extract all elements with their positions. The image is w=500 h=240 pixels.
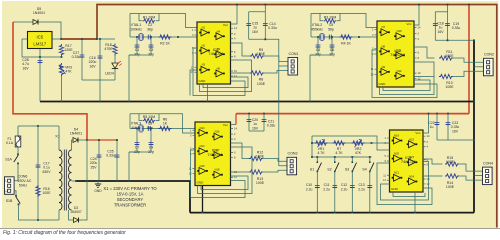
wire osc2 ground rail [310, 54, 332, 56]
svg-text:S4: S4 [362, 168, 366, 172]
svg-text:15V-0-15V, 1A: 15V-0-15V, 1A [117, 192, 144, 197]
svg-text:Vcc: Vcc [406, 22, 412, 26]
svg-text:R2 1K: R2 1K [160, 41, 170, 45]
svg-text:CON3: CON3 [288, 152, 298, 156]
inverter gate N3 [199, 69, 201, 71]
diode D3 [74, 218, 79, 223]
wire osc3 main line [130, 128, 174, 130]
wire IC3 GND to lower bus [202, 186, 204, 213]
wire osc1 fb left lead [139, 14, 142, 21]
svg-text:S3: S3 [345, 168, 349, 172]
junction C23 rail-riser [473, 139, 475, 141]
fuse F1 [15, 136, 21, 147]
preset VR3 [59, 63, 63, 76]
resistor R13 [249, 170, 263, 174]
svg-text:230V AC: 230V AC [18, 179, 32, 183]
resistor R1 [143, 19, 156, 23]
svg-text:630V: 630V [43, 170, 52, 174]
svg-text:N9: N9 [382, 65, 386, 69]
svg-text:33p: 33p [148, 52, 154, 56]
svg-text:N4: N4 [217, 29, 221, 33]
svg-text:100E: 100E [43, 191, 52, 195]
wire C25 column [116, 140, 118, 181]
svg-text:74HC14: 74HC14 [401, 159, 416, 164]
wire primary top rail [18, 125, 59, 127]
wire red riser right [468, 5, 470, 114]
svg-text:100kHz: 100kHz [130, 27, 142, 31]
svg-text:74HC04: 74HC04 [208, 51, 223, 56]
junction C22 on red bus [436, 113, 438, 115]
wire CON6 N to S1B [14, 191, 16, 196]
capacitor C2 [147, 35, 149, 40]
svg-text:N14: N14 [200, 144, 205, 148]
inverter gate N4 [214, 35, 216, 37]
junction osc1 main [177, 36, 179, 38]
svg-text:33p: 33p [134, 52, 140, 56]
wire D5 anode [13, 21, 33, 23]
inverter gate N11 [394, 54, 396, 56]
svg-text:N24: N24 [409, 174, 414, 178]
svg-text:16V: 16V [252, 126, 259, 130]
inverter gate N20 [392, 158, 394, 160]
wire C14 column [264, 5, 266, 40]
inverter gate N19 [392, 140, 394, 142]
wire osc1 fb right lead [156, 14, 159, 21]
connector CON4 [483, 167, 493, 185]
junction rail C14 [264, 4, 266, 6]
svg-text:4.7K: 4.7K [317, 151, 325, 155]
capacitor C13 [369, 172, 371, 213]
wire R18 to LED4 [114, 54, 116, 63]
capacitor C3 [149, 44, 154, 46]
svg-text:100E: 100E [257, 82, 266, 86]
node DC raw [86, 139, 88, 141]
wire IC4 GND drop [414, 192, 416, 213]
wire IC4 out to R14 [423, 175, 443, 177]
svg-text:R4 1K: R4 1K [341, 41, 351, 45]
wire C18 branch [435, 11, 447, 13]
capacitor C16 [98, 55, 103, 57]
svg-text:CON2: CON2 [484, 53, 494, 57]
wire C28 column [39, 57, 41, 102]
svg-text:2.2u: 2.2u [323, 187, 330, 191]
resistor R2 [159, 35, 172, 39]
wire IC3 loop 3 [191, 150, 246, 198]
caption [3, 230, 497, 236]
resistor R14 [445, 174, 459, 178]
capacitor C8 [147, 126, 149, 131]
svg-text:455kHz: 455kHz [311, 27, 323, 31]
junction osc3-ground [128, 180, 130, 182]
wire C18/C19 ground rail [435, 39, 474, 41]
wire IC3 out to R13 [231, 171, 251, 173]
svg-text:100E: 100E [445, 54, 454, 58]
svg-text:N: N [5, 189, 7, 193]
junction C20 on red bus [248, 113, 250, 115]
junction IC4 Vcc on red bus [428, 113, 430, 115]
wire C22 column [436, 114, 438, 140]
capacitor C20 [247, 119, 252, 121]
wire C15 branch [249, 11, 266, 13]
svg-text:16V: 16V [89, 64, 96, 68]
wire osc1 main line [130, 36, 174, 38]
resistor R9 [250, 54, 264, 58]
svg-text:GND: GND [199, 79, 207, 83]
svg-text:1K: 1K [163, 122, 168, 126]
wire C15 column [248, 12, 250, 40]
junction CON4 gnd on riser [473, 175, 475, 177]
node adj [39, 56, 41, 58]
capacitor C19 [445, 22, 450, 24]
resistor R11 [439, 56, 453, 60]
wire R11 to CON2 pin1 [452, 58, 484, 62]
wire IC3 out to R12 [231, 143, 251, 159]
node regulator output [60, 38, 62, 40]
junction osc1-ground [128, 101, 130, 103]
inverter gate N16 [212, 136, 214, 138]
svg-text:0.33u: 0.33u [452, 26, 461, 30]
wire C1 column [136, 37, 138, 55]
svg-text:16V: 16V [22, 66, 29, 70]
svg-text:R1 10M: R1 10M [143, 15, 156, 19]
wire IC5 input pin [22, 38, 28, 40]
wire osc2 loop top [311, 14, 377, 28]
resistor R10 [439, 74, 453, 78]
wire RC chain top to IC4 [312, 136, 390, 150]
wire R12 to CON3 pin1 [262, 159, 287, 162]
wire R13 to CON3 pin3 [262, 170, 287, 172]
wire osc1 ground drop [128, 55, 130, 102]
junction R16 bottom [37, 219, 39, 221]
crystal XTAL2 [320, 34, 324, 40]
wire R15 to CON4 pin1 [458, 164, 483, 171]
wire primary bottom rail [19, 206, 60, 221]
wire CON1 middle pin [279, 65, 288, 67]
wire R14 to CON4 pin3 [458, 176, 483, 180]
wire ground riser right [473, 40, 475, 212]
junction rail corner [96, 38, 98, 40]
wire osc2 main line [311, 36, 355, 38]
capacitor C17 [36, 164, 41, 166]
capacitor C27 [80, 54, 85, 56]
wire IC1 Vcc riser [231, 5, 238, 25]
wire osc1 ground rail [129, 54, 151, 56]
pin stubs IC4 [387, 136, 426, 184]
wire osc1 to IC1 input [174, 36, 197, 38]
hex inverter IC3 [189, 122, 238, 186]
wire R10 to CON2 pin3 [452, 71, 484, 76]
capacitor C12 [351, 172, 353, 213]
wire IC1 GND drop [207, 84, 209, 102]
junction VR3-ground [61, 101, 63, 103]
svg-text:N7: N7 [382, 25, 386, 29]
svg-text:74HC04: 74HC04 [390, 52, 405, 57]
capacitor C21 [262, 119, 267, 121]
junction rail-bus [99, 101, 101, 103]
junction CON2 gnd on riser [473, 66, 475, 68]
wire CON3 middle pin gnd [279, 102, 287, 166]
crystal XTAL3 [139, 126, 143, 132]
capacitor C10 [316, 172, 318, 213]
wire C6 column [331, 37, 333, 55]
inverter gate N17 [212, 154, 214, 156]
svg-text:100E: 100E [257, 52, 266, 56]
svg-text:1N4007: 1N4007 [70, 210, 82, 214]
svg-text:N21: N21 [394, 171, 399, 175]
pin stubs IC1 [195, 28, 234, 76]
connector CON1 [288, 58, 298, 76]
wire IC2 loop 3 [372, 50, 437, 98]
wire IC3 Vcc stub [231, 124, 237, 126]
resistor R15 [445, 162, 459, 166]
svg-text:2.2u: 2.2u [358, 187, 365, 191]
node R17/VR3 [61, 56, 63, 58]
wire fuse to S1A [17, 147, 19, 154]
capacitor C23 [446, 122, 451, 124]
pin stubs IC2 [375, 28, 417, 79]
capacitor C15 [246, 22, 251, 24]
wire ground bus lower [190, 212, 474, 214]
diode D5 [33, 20, 38, 25]
connector CON2 [484, 58, 494, 76]
wire secondary bottom lead [69, 210, 74, 220]
inverter gate N2 [199, 50, 201, 52]
svg-text:1N4001: 1N4001 [70, 132, 82, 136]
svg-text:0.1A: 0.1A [6, 141, 14, 145]
inverter gate N13 [197, 132, 199, 134]
svg-text:N8: N8 [382, 44, 386, 48]
junction chain right [371, 142, 373, 144]
wire chain to IC4 input [372, 142, 390, 144]
wire D3 cathode riser [79, 140, 88, 220]
inverter gate N15 [197, 170, 199, 172]
wire IC2 out to R11 [414, 47, 435, 58]
capacitor C14 [263, 22, 268, 24]
wire decoupling ground to CON1 gnd column [249, 39, 279, 101]
switch S4 [369, 156, 371, 158]
wire secondary top lead [72, 140, 74, 150]
wire CON2 middle pin [474, 66, 484, 68]
wire to ground symbol [97, 181, 99, 184]
wire raw DC feed [87, 139, 117, 141]
svg-text:33p: 33p [329, 52, 335, 56]
wire IC1 loop 2 [200, 60, 252, 92]
wire primary bottom lead [58, 210, 60, 220]
preset VR1 [315, 141, 328, 145]
wire osc3 ground rail [129, 151, 151, 153]
svg-text:R5 10M: R5 10M [143, 115, 156, 119]
wire IC5 adj pin drop [39, 49, 41, 58]
resistor R17 [59, 44, 63, 56]
resistor R4 [340, 35, 353, 39]
svg-text:N16: N16 [215, 130, 220, 134]
wire CON4 middle pin [474, 175, 483, 177]
capacitor C22 [435, 122, 440, 124]
ground [95, 184, 101, 187]
wire LED/cap ground rail [82, 79, 115, 81]
inverter gate N8 [379, 50, 381, 52]
wire C27 column [81, 39, 83, 80]
wire switch row feed [312, 156, 372, 158]
junction C17 top [37, 125, 39, 127]
capacitor C28 [38, 60, 43, 62]
wire IC2 out to R10 [414, 76, 435, 78]
wire to fuse [17, 126, 19, 136]
svg-text:X1 = 230V AC PRIMARY TO: X1 = 230V AC PRIMARY TO [103, 186, 157, 191]
svg-text:GND: GND [197, 181, 205, 185]
wire C24 column [98, 140, 100, 181]
svg-text:TRANSFORMER: TRANSFORMER [114, 203, 146, 208]
wire IC1 loop 3 [193, 48, 245, 96]
LED4 [112, 63, 118, 68]
resistor R16 [36, 185, 40, 197]
junction osc2-ground [309, 101, 311, 103]
svg-text:N1: N1 [202, 26, 206, 30]
switch S3 [351, 156, 353, 158]
resistor R7 [333, 141, 346, 145]
junction C14 rail [264, 38, 266, 40]
svg-text:N18: N18 [215, 168, 220, 172]
svg-text:N19: N19 [394, 134, 399, 138]
svg-text:0.33u: 0.33u [267, 124, 276, 128]
wire C18 column [434, 12, 436, 41]
wire IC1 loop 4 [190, 70, 197, 96]
wire RC chain left col [311, 136, 313, 157]
wire D4 cathode [78, 139, 87, 141]
wire IC3 Vcc riser red [235, 114, 237, 125]
svg-text:56p: 56p [147, 126, 153, 130]
wire C3 column [150, 37, 152, 55]
connector CON6 [5, 177, 15, 195]
inverter gate N24 [407, 181, 409, 183]
switch S1A [17, 154, 19, 156]
wire D5 cathode to regulator node [38, 22, 61, 39]
svg-text:S1A: S1A [5, 158, 12, 162]
wire IC5 output pin [52, 38, 61, 40]
junction C27 top [81, 38, 83, 40]
wire osc2 rail ext [310, 54, 317, 56]
inverter gate N22 [407, 143, 409, 145]
wire IC2 loop 2 [380, 62, 435, 95]
wire S1A to CON6 L [14, 165, 18, 181]
junction C21 on red bus [263, 113, 265, 115]
wire VR3 to ground bus [61, 75, 63, 102]
wire osc3 ground drop [128, 152, 130, 181]
inverter gate N23 [407, 161, 409, 163]
capacitor C1 [135, 44, 140, 46]
wire osc1 rail ext [129, 54, 136, 56]
capacitor C25 [115, 154, 120, 156]
wire red rectifier feed left [13, 22, 87, 140]
svg-text:100E: 100E [446, 185, 455, 189]
crystal XTAL1 [139, 34, 143, 40]
svg-text:GND: GND [379, 82, 387, 86]
svg-text:1N4001: 1N4001 [33, 11, 45, 15]
switch S1 [316, 156, 318, 158]
svg-text:2.2u: 2.2u [341, 187, 348, 191]
svg-text:33p: 33p [315, 52, 321, 56]
junction IC1 Vcc on rail [236, 4, 238, 6]
wire osc3 fb left lead [139, 114, 142, 121]
svg-text:R3 10M: R3 10M [324, 15, 337, 19]
svg-text:100E: 100E [256, 181, 265, 185]
resistor R18 [113, 44, 117, 56]
wire osc2 left column [310, 14, 312, 38]
wire R8 to CON1 pin3 [263, 71, 288, 74]
inverter gate N10 [394, 35, 396, 37]
svg-text:IC5: IC5 [37, 35, 44, 40]
wire C4 column [317, 37, 319, 55]
svg-text:N10: N10 [397, 29, 402, 33]
inverter gate N5 [214, 53, 216, 55]
svg-text:SECONDARY: SECONDARY [117, 197, 144, 202]
wire LED4 down [114, 69, 116, 80]
wire ground bus middle-left [76, 181, 190, 213]
svg-text:N13: N13 [200, 126, 205, 130]
wire C16 column [99, 39, 101, 80]
junction rail C19 [447, 4, 449, 6]
wire IC4 out to R15 [423, 159, 443, 164]
wire osc1 loop top [130, 14, 197, 28]
wire rail drop to bus [99, 80, 101, 102]
wire to R18 [97, 38, 115, 40]
node centre tap [75, 180, 77, 182]
wire IC4 loop 1 [377, 163, 432, 205]
inverter gate N7 [379, 31, 381, 33]
svg-text:CON6: CON6 [18, 175, 28, 179]
wire IC3 loop 1 [201, 176, 248, 190]
wire centre tap [72, 180, 77, 182]
wire osc3 to IC3 input [174, 128, 195, 130]
svg-text:1u: 1u [430, 125, 434, 129]
junction IC3 gnd [202, 212, 204, 214]
junction chain left [311, 142, 313, 144]
inverter gate N6 [214, 73, 216, 75]
svg-text:S2: S2 [327, 168, 331, 172]
inverter gate N18 [212, 174, 214, 176]
junction osc2 main [358, 36, 360, 38]
junction riser-upper bus [473, 101, 475, 103]
svg-text:N2: N2 [202, 44, 206, 48]
capacitor C18 [433, 22, 438, 24]
wire osc3 rail ext [129, 151, 136, 153]
svg-text:Vcc: Vcc [415, 131, 421, 135]
svg-text:N12: N12 [397, 69, 402, 73]
capacitor C4 [316, 44, 321, 46]
wire IC2 Vcc riser [414, 5, 419, 26]
svg-text:47K: 47K [65, 70, 72, 74]
wire red +V mid bus [236, 113, 469, 115]
svg-text:N15: N15 [200, 164, 205, 168]
inverter gate N1 [199, 32, 201, 34]
svg-text:N20: N20 [394, 152, 399, 156]
junction C16 top [99, 38, 101, 40]
svg-text:GND: GND [391, 187, 399, 191]
wire IC5 adj row [22, 39, 62, 57]
wire Vcc top rail and right frame [97, 5, 497, 228]
wire C22/C23 ground rail [437, 139, 474, 141]
voltage regulator IC5 [28, 32, 53, 49]
svg-text:S1B: S1B [6, 199, 13, 203]
capacitor C5 [328, 35, 330, 40]
resistor R5 [143, 119, 156, 123]
junction rail-riser [473, 39, 475, 41]
wire osc2 to IC2 input [355, 36, 377, 38]
resistor R6 [159, 126, 172, 130]
svg-text:S1: S1 [310, 168, 314, 172]
preset VR2 [352, 141, 365, 145]
junction CON1-ground [278, 101, 280, 103]
